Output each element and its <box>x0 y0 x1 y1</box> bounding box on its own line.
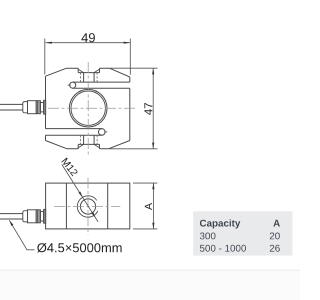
side view outline <box>46 183 130 229</box>
dimensions <box>9 39 157 250</box>
dim 47 top arrow <box>152 68 154 74</box>
upper slot center tick <box>68 84 71 86</box>
dim 49 line <box>46 42 130 44</box>
top notch sides <box>78 68 99 72</box>
M12 leader line <box>62 164 98 222</box>
bottom hole chamfer diagonals <box>78 144 99 147</box>
body right edge <box>129 77 131 141</box>
upper slot end radius <box>70 82 76 88</box>
side view thread outer arc <box>77 196 97 217</box>
table cell 26 <box>270 245 280 252</box>
table header A <box>273 220 280 227</box>
dim text 47 <box>144 103 152 115</box>
dim A line <box>152 183 154 229</box>
lower slot end radius <box>99 129 106 136</box>
body bottom-right chamfer <box>109 141 130 149</box>
dim 47 line <box>152 68 154 149</box>
body bottom-left chamfer <box>46 141 68 149</box>
side cable lines <box>0 214 23 219</box>
body top-left chamfer <box>46 68 67 76</box>
lower slot center tick <box>104 131 107 133</box>
label M12 <box>61 157 78 176</box>
table cell 500 - 1000 <box>200 245 246 252</box>
dim 49 right arrow <box>124 42 130 44</box>
front cable lines <box>0 104 23 110</box>
capacity table background <box>193 211 292 255</box>
dim 47 extension lines <box>109 68 158 149</box>
body bottom edge <box>67 148 109 150</box>
side view right division line <box>107 183 109 229</box>
lower slot lines <box>46 129 102 136</box>
side view left division line <box>65 183 67 229</box>
side vertical centerline <box>87 178 89 236</box>
top hole bore lines <box>84 73 95 83</box>
side horizontal centerline <box>54 206 120 208</box>
bottom section divider line <box>0 270 300 271</box>
central bore outer circle <box>69 89 107 127</box>
top hole thread hidden lines <box>81 73 98 82</box>
dim A top arrow <box>152 183 154 189</box>
upper slot lines <box>73 82 130 88</box>
front horizontal centerline <box>48 107 137 109</box>
table cell 300 <box>200 233 216 240</box>
cable leader arrow <box>9 220 13 226</box>
dim text 49 <box>81 33 95 42</box>
dim A bottom arrow <box>152 223 154 229</box>
table header Capacity <box>200 219 240 228</box>
bottom notch sides <box>78 144 99 148</box>
body top-right chamfer <box>110 68 130 77</box>
bottom section band <box>0 271 300 300</box>
top hole chamfer diagonals <box>78 69 99 72</box>
side cable gland <box>23 209 46 223</box>
front vertical centerline <box>87 62 89 155</box>
M12 arrow upper <box>78 192 82 198</box>
front cable gland <box>23 100 46 114</box>
dim 49 extension lines <box>45 39 131 75</box>
body left edge <box>45 76 47 140</box>
centerlines <box>48 62 137 235</box>
dim text A <box>145 203 152 210</box>
cable leader line <box>9 220 34 250</box>
dim A extension lines <box>133 183 157 229</box>
side view tapped hole inner circle <box>80 199 95 214</box>
central bore inner circle <box>71 91 105 125</box>
bottom hole bore lines <box>84 135 95 144</box>
bottom hole thread hidden lines <box>81 135 98 144</box>
label cable size <box>37 243 121 253</box>
table cell 20 <box>270 233 280 240</box>
top notch bottom <box>78 72 99 74</box>
body top edge <box>67 67 110 69</box>
dim 47 bottom arrow <box>152 143 154 149</box>
M12 arrow lower <box>91 212 95 218</box>
dim 49 left arrow <box>46 42 52 44</box>
bottom notch top <box>78 143 99 145</box>
